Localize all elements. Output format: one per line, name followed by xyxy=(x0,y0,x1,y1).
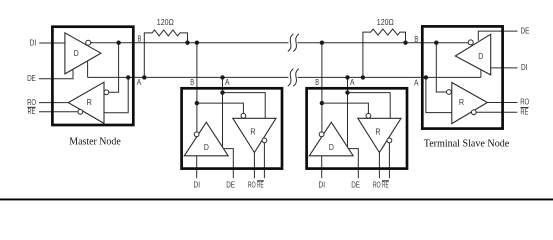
driver D (slave 1, pointing up) xyxy=(184,122,228,156)
svg-text:D: D xyxy=(478,51,483,61)
driver D (terminal, pointing left) xyxy=(455,34,490,75)
svg-text:R: R xyxy=(250,127,255,137)
junction: slave 2 A tap on bus xyxy=(345,75,349,79)
slave node 1: B drop wire from bus to driver bubble xyxy=(196,43,198,132)
wire: vertical from B junction down to receiver inverting input xyxy=(109,43,119,93)
svg-text:DE: DE xyxy=(226,180,235,190)
junction: master A branch xyxy=(126,75,130,79)
wire: A bus line (right segment, break to terminal node) xyxy=(298,76,481,78)
resistor R-term1 120 ohm (left termination, between A and B) xyxy=(144,30,187,78)
overline for /RE (master) xyxy=(27,106,35,108)
svg-text:A: A xyxy=(414,78,419,88)
master node: DI input stub wire xyxy=(39,42,65,44)
svg-text:DI: DI xyxy=(319,180,326,190)
svg-text:B: B xyxy=(315,77,319,87)
receiver R (terminal, pointing right) xyxy=(452,83,488,124)
slave node 2 box xyxy=(307,88,407,168)
inversion bubble on master receiver enable /RE xyxy=(78,109,83,114)
svg-text:A: A xyxy=(137,77,142,87)
junction: terminal B branch xyxy=(434,41,438,45)
svg-text:R: R xyxy=(459,97,464,107)
wire: vertical from terminal A junction down to receiver input xyxy=(426,77,452,112)
master node: RO output stub wire xyxy=(39,102,68,104)
master node: driver A output wire (from driver lower edge down and right) xyxy=(87,61,89,78)
slave node 1 box xyxy=(182,88,282,168)
svg-text:D: D xyxy=(74,48,79,58)
junction: terminal A branch xyxy=(424,75,428,79)
junction: slave 1 A tap on bus xyxy=(220,75,224,79)
junction: R-term1 lead on A line xyxy=(142,75,146,79)
inversion bubble on slave 2 receiver B input xyxy=(366,113,371,118)
slave node 2: B drop wire from bus to driver bubble xyxy=(321,43,323,132)
slave node 1: /RE wire from enable bubble to pin xyxy=(263,143,265,178)
svg-text:RO: RO xyxy=(373,180,381,190)
svg-text:DE: DE xyxy=(521,25,530,35)
bottom rule xyxy=(0,199,553,201)
overline for /RE (slave 2) xyxy=(382,180,389,182)
svg-text:RO: RO xyxy=(520,97,529,107)
junction: master B branch xyxy=(116,41,120,45)
slave node 2: DE wire from driver edge to pin xyxy=(349,149,359,179)
svg-text:120Ω: 120Ω xyxy=(157,17,174,27)
terminal node: DE input wire into driver enable xyxy=(478,31,517,40)
svg-text:DE: DE xyxy=(27,73,36,83)
svg-text:Master Node: Master Node xyxy=(69,136,121,147)
master node box xyxy=(52,27,133,125)
slave node 2: RO wire from receiver apex to pin xyxy=(378,153,380,179)
svg-text:B: B xyxy=(138,34,142,44)
inversion bubble on slave 1 receiver B input xyxy=(241,113,246,118)
junction: slave 1 A branch inside box xyxy=(220,90,224,94)
terminal node: RO output stub wire xyxy=(487,102,517,104)
receiver R (slave 1, pointing down) xyxy=(233,118,276,152)
overline for /RE (slave 1) xyxy=(257,180,264,182)
svg-text:B: B xyxy=(190,77,194,87)
junction: R-term2 lead on A line xyxy=(361,75,365,79)
terminal node: DI input stub wire xyxy=(491,67,518,69)
slave node 2: A drop wire from bus to driver output edge xyxy=(347,77,349,146)
master node: DE input wire into driver enable xyxy=(39,70,73,79)
inversion bubble on slave 1 driver B output xyxy=(194,132,199,137)
svg-text:D: D xyxy=(204,142,209,152)
wire: vertical from terminal B junction down to receiver inverting input xyxy=(436,43,446,92)
junction: slave 1 B branch inside box xyxy=(195,101,199,105)
junction: slave 1 B tap on bus xyxy=(195,41,199,45)
svg-text:DI: DI xyxy=(521,62,528,72)
junction: R-term1 lead on B line xyxy=(185,41,189,45)
svg-text:DI: DI xyxy=(194,180,201,190)
receiver R (master) xyxy=(68,82,104,123)
inversion bubble on terminal receiver B input xyxy=(447,90,452,95)
resistor R-term2 120 ohm (right termination, between A and B) xyxy=(363,29,406,77)
junction: R-term2 lead on B line xyxy=(403,41,407,45)
svg-text:Terminal Slave Node: Terminal Slave Node xyxy=(424,138,510,149)
overline for /RE (terminal) xyxy=(520,107,528,109)
slave node 1: RO wire from receiver apex to pin xyxy=(253,153,255,179)
break symbol on A line xyxy=(288,69,294,87)
wire: vertical from A junction down to receiver input xyxy=(104,77,128,112)
inversion bubble on terminal receiver enable /RE xyxy=(471,110,476,115)
driver D (master) xyxy=(65,33,101,74)
break symbol on B line xyxy=(288,34,294,52)
wire: slave 2 B branch to receiver inverting input bubble xyxy=(322,103,369,113)
svg-text:D: D xyxy=(329,142,334,152)
svg-text:DI: DI xyxy=(30,37,37,47)
wire: A bus line (left segment, master to break) xyxy=(88,76,289,78)
junction: slave 2 B tap on bus xyxy=(320,41,324,45)
wire: B bus line (right segment, break to terminal driver bubble) xyxy=(298,42,469,44)
inversion bubble on slave 2 driver B output xyxy=(319,132,324,137)
receiver R (slave 2, pointing down) xyxy=(358,118,401,152)
inversion bubble on terminal driver B output xyxy=(468,40,473,45)
wire: slave 1 A branch to receiver input xyxy=(223,93,266,119)
terminal slave node box xyxy=(422,26,502,128)
wire: slave 2 A branch to receiver input xyxy=(348,93,391,119)
master node: /RE input stub wire to receiver enable bubble xyxy=(39,111,78,113)
svg-text:A: A xyxy=(225,77,230,87)
master node: driver B output wire from bubble to bus xyxy=(91,42,92,44)
slave node 1: DI wire from driver base to pin xyxy=(196,156,198,178)
inversion bubble on slave 2 receiver enable /RE xyxy=(387,138,392,143)
inversion bubble on master driver output xyxy=(86,40,91,45)
svg-text:RO: RO xyxy=(248,180,256,190)
driver D (slave 2, pointing up) xyxy=(309,122,353,156)
svg-text:B: B xyxy=(414,34,418,44)
slave node 1: A drop wire from bus to driver output edge xyxy=(222,77,224,146)
terminal node: /RE input stub wire from enable bubble xyxy=(476,111,517,113)
svg-text:A: A xyxy=(350,77,355,87)
inversion bubble on slave 1 receiver enable /RE xyxy=(262,138,267,143)
slave node 2: DI wire from driver base to pin xyxy=(321,156,323,178)
wire: B bus line (left segment, master to break) xyxy=(91,42,289,44)
wire: slave 1 B branch to receiver inverting input bubble xyxy=(197,103,244,113)
svg-text:R: R xyxy=(375,127,380,137)
svg-text:DE: DE xyxy=(351,180,360,190)
svg-text:120Ω: 120Ω xyxy=(377,17,394,27)
svg-text:R: R xyxy=(87,97,92,107)
inversion bubble on master receiver B input xyxy=(104,90,109,95)
terminal node: driver A output wire down to A line xyxy=(480,70,482,78)
slave node 1: DE wire from driver edge to pin xyxy=(224,149,234,179)
slave node 2: /RE wire from enable bubble to pin xyxy=(388,143,390,178)
junction: slave 2 A branch inside box xyxy=(345,90,349,94)
junction: slave 2 B branch inside box xyxy=(320,101,324,105)
